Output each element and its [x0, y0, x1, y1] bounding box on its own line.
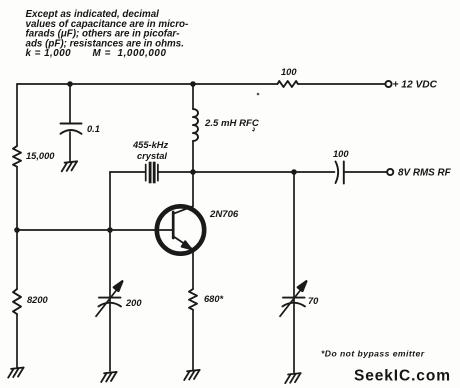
ground G3 — [101, 372, 117, 382]
node mid RFC — [190, 169, 196, 175]
svg-text:70: 70 — [308, 296, 319, 306]
wire cap to terminal — [344, 171, 387, 173]
wire base rail — [17, 229, 172, 231]
capacitor C1 0.1 — [61, 124, 82, 134]
resistor R4 680 — [189, 289, 197, 310]
node top bypass — [67, 81, 73, 87]
svg-text:2N706: 2N706 — [209, 209, 239, 220]
ground G2 — [62, 161, 78, 171]
wire top rail left — [17, 83, 277, 85]
resistor R2 15,000 — [13, 146, 21, 167]
svg-text:+ 12 VDC: + 12 VDC — [393, 79, 438, 90]
node base crystal — [107, 227, 113, 233]
artifact cedilla under RFC C — [252, 128, 254, 131]
ground G4 — [184, 370, 200, 380]
node mid output — [291, 169, 297, 175]
variable capacitor C3 200 — [96, 281, 122, 316]
wire cap to ground — [69, 132, 71, 162]
capacitor C2 100 — [336, 162, 344, 184]
wire RFC to node — [192, 141, 194, 172]
wire mid rail crystal left — [110, 171, 146, 173]
resistor R1 100 — [278, 81, 298, 87]
terminal 8V RMS RF — [387, 169, 393, 175]
svg-text:100: 100 — [281, 67, 297, 77]
svg-text:200: 200 — [125, 298, 142, 308]
variable capacitor C4 70 — [280, 281, 306, 316]
transistor Q1 2N706 — [157, 206, 204, 253]
wire left vertical upper — [16, 84, 18, 146]
ground G5 — [285, 373, 301, 383]
crystal Y1 455-kHz — [146, 162, 158, 184]
wire emitter — [192, 249, 194, 289]
terminal +12VDC — [385, 81, 391, 87]
svg-text:crystal: crystal — [137, 151, 167, 161]
wire 680 to ground — [192, 310, 194, 370]
note text — [26, 9, 189, 59]
svg-text:100: 100 — [333, 149, 349, 159]
ground G1 — [8, 368, 24, 378]
wire left vertical lower — [16, 314, 18, 368]
svg-text:680*: 680* — [204, 294, 224, 304]
node top RFC — [190, 81, 196, 87]
wire collector — [192, 172, 194, 207]
svg-text:8200: 8200 — [27, 295, 49, 305]
svg-text:k = 1,000: k = 1,000 — [26, 48, 72, 59]
svg-text:8V RMS RF: 8V RMS RF — [398, 167, 452, 178]
wire output node down — [293, 172, 295, 373]
resistor R3 8200 — [13, 289, 21, 314]
wire top rail right — [298, 83, 385, 85]
svg-text:455-kHz: 455-kHz — [132, 140, 168, 150]
svg-text:M = 1,000,000: M = 1,000,000 — [93, 48, 167, 59]
wire RFC branch top — [192, 84, 194, 109]
node base left — [14, 227, 20, 233]
wire mid rail — [158, 171, 335, 173]
wire left vertical mid — [16, 167, 18, 289]
svg-text:*Do not bypass emitter: *Do not bypass emitter — [321, 349, 425, 359]
wire base node down — [109, 230, 111, 371]
svg-text:15,000: 15,000 — [26, 151, 55, 161]
svg-text:0.1: 0.1 — [87, 124, 100, 134]
wire bypass cap branch — [69, 84, 71, 124]
inductor L1 2.5 mH RFC — [193, 109, 198, 141]
svg-text:2.5 mH RFC: 2.5 mH RFC — [204, 118, 260, 129]
svg-text:SeekIC.com: SeekIC.com — [354, 368, 451, 385]
wire crystal to base node — [109, 172, 111, 230]
artifact speck — [257, 93, 260, 96]
